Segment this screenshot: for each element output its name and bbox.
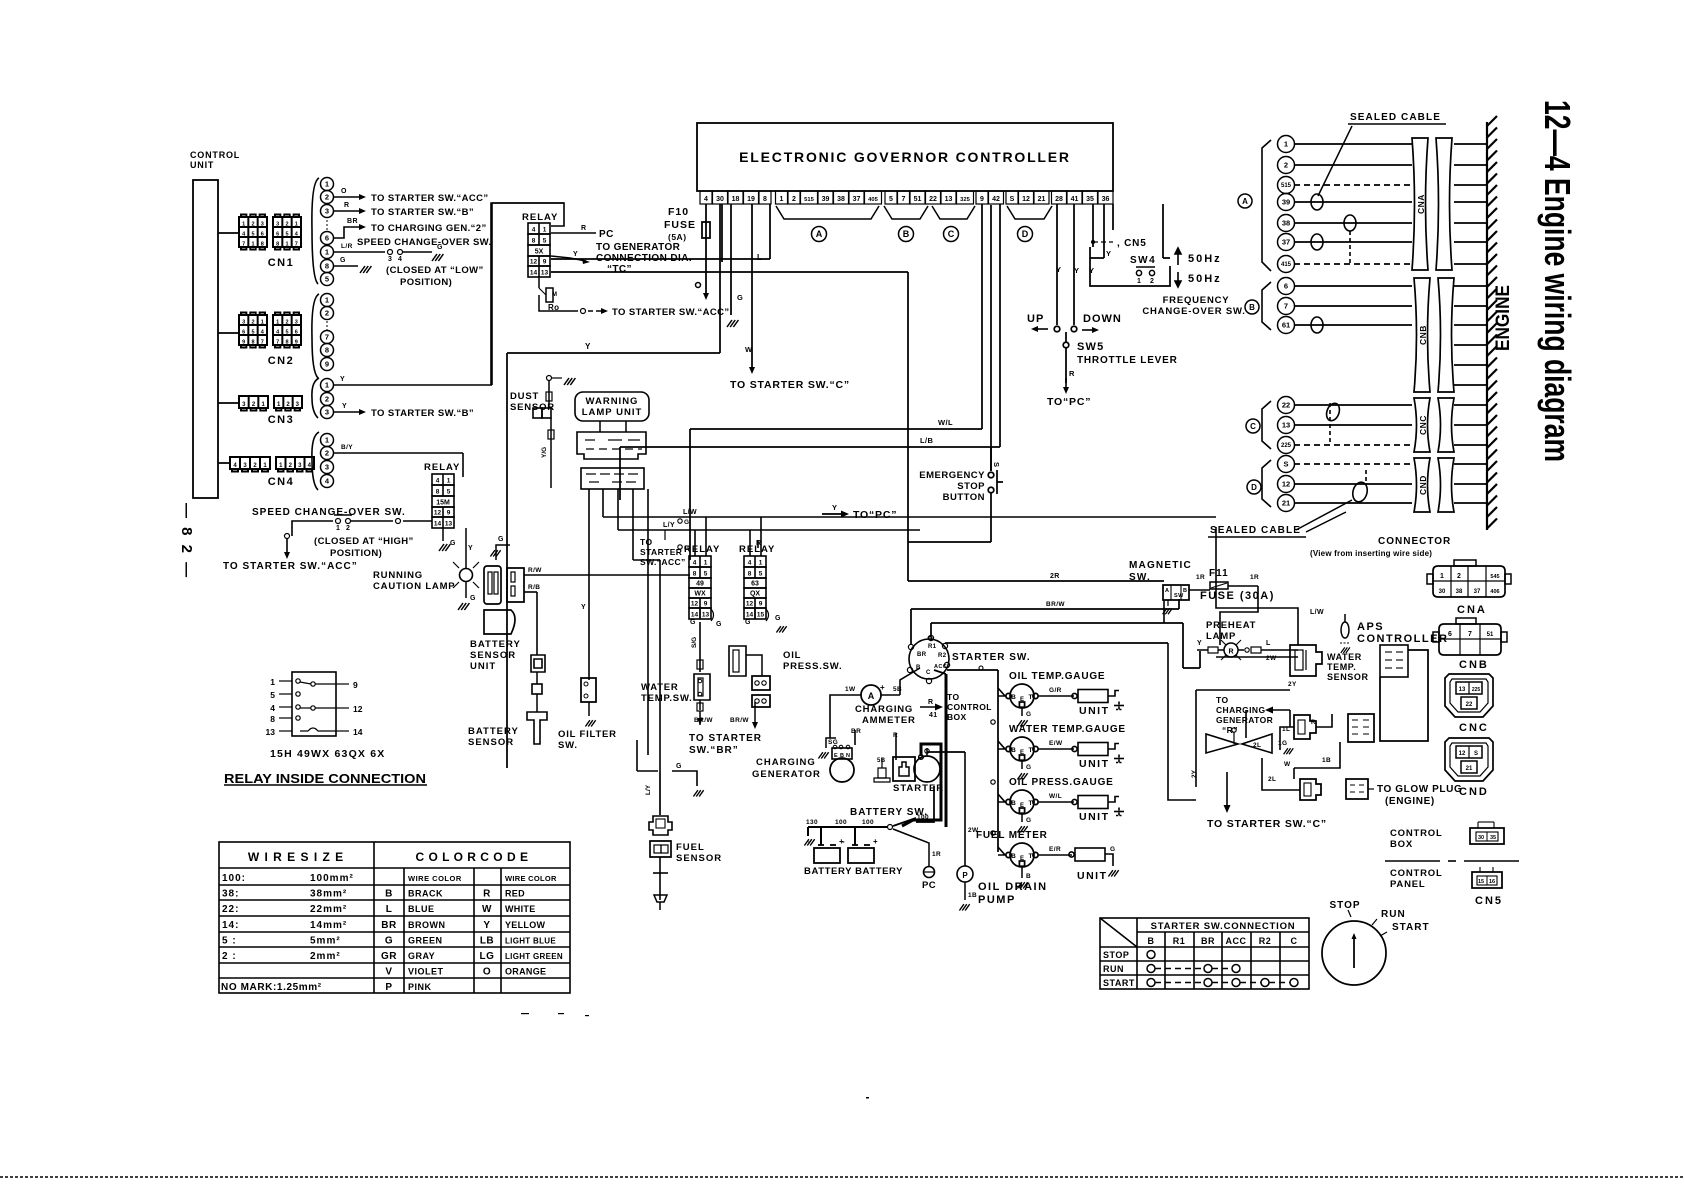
svg-text:BROWN: BROWN [408, 920, 446, 930]
svg-text:38: 38 [1282, 219, 1290, 228]
svg-text:TO STARTER SW.“ACC”: TO STARTER SW.“ACC” [371, 193, 489, 204]
svg-text:+: + [880, 683, 885, 692]
starter table column labels [1103, 936, 1298, 988]
svg-text:Y: Y [585, 342, 591, 351]
svg-text:YELLOW: YELLOW [505, 920, 546, 930]
wire CN3-1 Y long [334, 203, 564, 385]
APS controller [1357, 621, 1448, 741]
svg-text:9: 9 [353, 680, 358, 690]
connector CND body [1414, 458, 1454, 512]
svg-text:5B: 5B [877, 758, 886, 764]
oil drain pump [957, 752, 979, 911]
svg-text:L/Y: L/Y [663, 522, 675, 529]
svg-text:CND: CND [1418, 475, 1428, 495]
svg-text:LB: LB [480, 935, 494, 946]
svg-text:SW.: SW. [558, 740, 578, 751]
svg-text:51: 51 [914, 196, 922, 203]
glow wires labels [1191, 726, 1331, 783]
svg-text:E: E [1020, 803, 1024, 809]
water temp sensor label [1327, 652, 1369, 682]
svg-text:CHARGING: CHARGING [756, 757, 816, 768]
separator dashes [1385, 860, 1519, 862]
svg-text:R/W: R/W [528, 567, 542, 574]
svg-text:OIL FILTER: OIL FILTER [558, 729, 617, 740]
connector CNC symbol [1445, 674, 1493, 717]
svg-text:RELAY: RELAY [522, 212, 558, 223]
svg-text:9: 9 [242, 339, 245, 345]
CN2 pin circle column [312, 294, 334, 379]
svg-text:SENSOR: SENSOR [676, 853, 722, 864]
svg-text:BR: BR [347, 218, 358, 225]
svg-text:G: G [684, 519, 689, 526]
svg-text:C: C [1291, 936, 1298, 946]
svg-text:1: 1 [447, 478, 451, 485]
relay K1 [522, 212, 558, 277]
svg-text:7: 7 [902, 196, 906, 203]
svg-text:FUSE: FUSE [664, 219, 696, 231]
relay inside connection diagram [266, 672, 363, 737]
svg-text:CONNECTOR: CONNECTOR [1378, 536, 1451, 547]
svg-text:37: 37 [853, 196, 861, 203]
svg-text:G: G [716, 621, 722, 628]
svg-text:ELECTRONIC GOVERNOR CONTROLLER: ELECTRONIC GOVERNOR CONTROLLER [739, 149, 1071, 165]
svg-text:515: 515 [1281, 183, 1292, 189]
svg-text:BUTTON: BUTTON [943, 492, 985, 503]
svg-text:L/Y: L/Y [645, 784, 652, 795]
svg-text:CAUTION LAMP: CAUTION LAMP [373, 581, 455, 592]
svg-text:TO CHARGING GEN.“2”: TO CHARGING GEN.“2” [371, 223, 487, 234]
svg-text:5: 5 [251, 329, 254, 335]
svg-text:(CLOSED AT “HIGH”: (CLOSED AT “HIGH” [314, 536, 414, 547]
wire starter sw top runs [908, 581, 1200, 668]
svg-text:1: 1 [325, 436, 329, 445]
svg-text:E/R: E/R [1049, 846, 1061, 853]
connector CND symbol [1445, 738, 1493, 781]
svg-text:BR/W: BR/W [694, 717, 713, 724]
engine name label (rotated) [1493, 285, 1514, 351]
to starter sw C bottom [1207, 772, 1327, 830]
starter switch SW1 rotary [907, 635, 949, 683]
battery labels [804, 866, 903, 877]
svg-text:LIGHT GREEN: LIGHT GREEN [505, 952, 563, 961]
control unit box [193, 180, 218, 498]
table body text [221, 873, 563, 993]
svg-text:1: 1 [276, 319, 279, 325]
svg-text:100: 100 [862, 819, 874, 826]
svg-text:FUSE (30A): FUSE (30A) [1200, 590, 1275, 602]
svg-text:Y: Y [1089, 266, 1094, 275]
svg-text:CN1: CN1 [268, 257, 295, 269]
connector CN1 [218, 215, 301, 270]
svg-text:G: G [1026, 817, 1031, 824]
svg-text:1: 1 [759, 560, 763, 567]
svg-text:SG: SG [828, 739, 838, 746]
svg-text:Y/G: Y/G [541, 447, 548, 458]
svg-text:E/W: E/W [1049, 740, 1063, 747]
closed at high note [314, 536, 414, 559]
svg-text:VIOLET: VIOLET [408, 967, 444, 977]
svg-text:4: 4 [436, 478, 440, 485]
svg-text:415: 415 [1281, 262, 1292, 268]
control box label + connector [1390, 822, 1504, 850]
svg-text:V: V [385, 967, 392, 978]
svg-text:B/Y: B/Y [341, 444, 353, 451]
to starter sw ACC mid labels [640, 519, 689, 567]
svg-text:STARTER: STARTER [640, 547, 682, 557]
svg-text:SENSOR: SENSOR [1327, 672, 1369, 682]
svg-text:R/B: R/B [528, 584, 540, 591]
svg-text:1R: 1R [1196, 574, 1205, 581]
svg-text:B: B [903, 229, 910, 239]
wire fuse F10 branch [702, 204, 710, 295]
svg-text:E: E [1020, 750, 1024, 756]
svg-text:12: 12 [530, 259, 538, 266]
svg-text:12: 12 [691, 601, 699, 608]
relay K1 enclosure wire [491, 203, 564, 385]
svg-text:AMMETER: AMMETER [862, 715, 916, 726]
svg-text:GENERATOR: GENERATOR [1216, 715, 1273, 725]
svg-text:1: 1 [325, 296, 329, 305]
svg-text:8: 8 [285, 339, 288, 345]
svg-text:O: O [483, 967, 491, 978]
oil press sw [729, 646, 770, 707]
W/L wire [690, 204, 982, 560]
junction circles on gauge bus [976, 830, 1119, 889]
svg-text:R1: R1 [1173, 936, 1186, 946]
switch SW5 throttle lever [1077, 341, 1178, 366]
svg-text:4: 4 [748, 560, 752, 567]
to control box arrow [920, 692, 992, 722]
svg-text:30: 30 [716, 196, 724, 203]
svg-text:UNIT: UNIT [190, 160, 214, 170]
svg-text:1: 1 [1284, 140, 1288, 149]
svg-text:9: 9 [447, 510, 451, 517]
svg-text:6: 6 [1284, 282, 1288, 291]
relay types label [270, 748, 386, 760]
relay K2 [424, 462, 460, 528]
svg-text:225: 225 [1281, 443, 1292, 449]
svg-text:15: 15 [1478, 879, 1484, 885]
svg-text:15: 15 [757, 612, 765, 619]
svg-text:TO STARTER SW.“ACC”: TO STARTER SW.“ACC” [223, 561, 358, 572]
svg-text:STARTER SW.: STARTER SW. [952, 652, 1031, 663]
svg-text:6: 6 [1448, 631, 1452, 638]
svg-text:UNIT: UNIT [1079, 811, 1110, 823]
glow plug connector + label [1346, 779, 1462, 807]
svg-text:L/W: L/W [683, 509, 697, 516]
wire cell30 down to ground [722, 204, 731, 315]
svg-text:12: 12 [353, 704, 363, 714]
svg-text:21: 21 [1466, 766, 1473, 772]
svg-text:UNIT: UNIT [1077, 870, 1108, 882]
svg-text:6: 6 [276, 231, 279, 237]
svg-text:22: 22 [929, 196, 937, 203]
svg-text:G: G [676, 763, 682, 770]
svg-text:SPEED CHANGE-OVER SW.: SPEED CHANGE-OVER SW. [252, 507, 406, 518]
CNA label [1457, 604, 1487, 616]
charging generator [830, 745, 854, 782]
battery sensor [527, 592, 547, 744]
svg-text:2: 2 [251, 319, 254, 325]
svg-text:8: 8 [693, 571, 697, 578]
connector CNC body [1414, 398, 1454, 452]
svg-text:CND: CND [1459, 786, 1489, 798]
svg-text:2: 2 [1457, 573, 1461, 580]
svg-text:PC: PC [922, 880, 936, 891]
svg-text:WATER: WATER [1327, 652, 1362, 662]
svg-text:R: R [928, 699, 933, 706]
charging generator label [752, 757, 821, 780]
charging ammeter label [855, 704, 916, 726]
svg-text:APS: APS [1357, 621, 1384, 633]
svg-text:TO STARTER SW.“C”: TO STARTER SW.“C” [730, 379, 850, 391]
svg-text:12—4 Engine wiring diagram: 12—4 Engine wiring diagram [1537, 100, 1578, 462]
svg-text:FUEL METER: FUEL METER [976, 830, 1048, 841]
wires from pins to connector CNA [1294, 144, 1412, 503]
svg-text:5: 5 [285, 231, 288, 237]
svg-text:1: 1 [1137, 278, 1141, 285]
svg-text:TO: TO [947, 692, 959, 702]
svg-text:8: 8 [325, 262, 329, 271]
svg-text:6: 6 [295, 329, 298, 335]
svg-text:TO STARTER SW.“B”: TO STARTER SW.“B” [371, 207, 474, 218]
starter small connector [874, 758, 890, 782]
svg-text:DOWN: DOWN [1083, 313, 1122, 325]
svg-text:CNA: CNA [1457, 604, 1487, 616]
svg-text:22: 22 [1466, 702, 1473, 708]
starter sw label [952, 652, 1031, 663]
CN3 pin circle column [312, 378, 334, 419]
svg-text:A: A [816, 229, 823, 239]
svg-text:6: 6 [325, 234, 329, 243]
oil filter sw [581, 604, 596, 727]
svg-text:21: 21 [1038, 196, 1046, 203]
pin group braces A-D under strip [776, 206, 1052, 219]
controller terminal strip with pin numbers [700, 191, 1113, 204]
svg-text:35: 35 [1490, 835, 1496, 841]
L/Y wire label [663, 522, 675, 529]
svg-text:R: R [1069, 369, 1075, 378]
svg-text:406: 406 [1490, 589, 1499, 595]
control panel label + connector CN5 [1390, 867, 1502, 890]
to generator connection labels [596, 242, 692, 275]
svg-text:G/R: G/R [1049, 687, 1062, 694]
svg-text:1W: 1W [845, 686, 856, 693]
svg-text:100: 100 [917, 814, 929, 821]
svg-text:BOX: BOX [1390, 839, 1413, 850]
throttle UP/DOWN wires [1054, 204, 1077, 383]
svg-text:Y: Y [342, 403, 347, 410]
wires strip to SW4/CN5 [1090, 204, 1170, 258]
svg-text:G: G [385, 935, 393, 946]
running caution lamp [453, 528, 479, 610]
svg-text:T: T [1029, 747, 1033, 754]
svg-text:FUEL: FUEL [676, 842, 705, 853]
bottom dotted rule [0, 1176, 1684, 1178]
svg-text:CONTROL: CONTROL [947, 702, 992, 712]
svg-text:Y: Y [1197, 640, 1202, 647]
svg-text:CHARGING: CHARGING [1216, 705, 1265, 715]
UP label and arrow [1027, 313, 1048, 332]
svg-text:8: 8 [763, 196, 767, 203]
svg-text:B: B [1148, 936, 1155, 946]
connector CNA symbol [1427, 560, 1511, 597]
svg-text:W: W [745, 345, 753, 354]
svg-text:R2: R2 [938, 653, 947, 659]
wire relay Y [551, 251, 590, 264]
svg-text:SENSOR: SENSOR [510, 402, 555, 413]
svg-text:1B: 1B [968, 892, 977, 899]
svg-text:L: L [1266, 640, 1271, 647]
engine boundary wall with hatching [1487, 116, 1497, 530]
svg-text:SEALED CABLE: SEALED CABLE [1210, 525, 1301, 536]
svg-text:G: G [498, 536, 504, 543]
svg-text:C: C [926, 670, 931, 676]
svg-text:22: 22 [1282, 401, 1290, 410]
svg-text:7: 7 [325, 333, 329, 342]
svg-text:7: 7 [295, 241, 298, 247]
svg-text:Y: Y [483, 920, 490, 931]
stray marks [521, 1013, 869, 1099]
switch SW4 [1090, 247, 1170, 286]
wire to starter ACC (relay) [539, 295, 730, 318]
svg-text:1R: 1R [932, 851, 941, 858]
svg-text:E: E [1020, 856, 1024, 862]
svg-text:“R”: “R” [1222, 725, 1238, 735]
group C brace [1262, 401, 1271, 449]
svg-text:(View from inserting wire side: (View from inserting wire side) [1310, 549, 1432, 558]
svg-text:1: 1 [704, 560, 708, 567]
svg-text:14: 14 [746, 612, 754, 619]
svg-text:41: 41 [929, 712, 938, 719]
svg-text:START: START [1103, 978, 1135, 988]
wires from warning lamp strip [589, 489, 1216, 771]
svg-text:W I R E S I Z E: W I R E S I Z E [248, 850, 344, 864]
svg-text:WX: WX [694, 591, 706, 598]
svg-text:BR/W: BR/W [730, 717, 749, 724]
sealed cable label top [1318, 112, 1446, 196]
svg-text:5: 5 [889, 196, 893, 203]
group A brace [1262, 140, 1271, 271]
battery sensor unit body [484, 566, 524, 634]
group A circled label [1238, 194, 1252, 208]
svg-text:3: 3 [261, 221, 264, 227]
svg-text:RELAY: RELAY [739, 544, 775, 555]
svg-text:16: 16 [1489, 879, 1495, 885]
svg-text:19: 19 [747, 196, 755, 203]
to starter ACC bottom-left [223, 539, 358, 572]
emergency stop button label [919, 470, 985, 503]
svg-text:B: B [1249, 303, 1255, 312]
grid connector right of glow relay [1348, 714, 1374, 742]
svg-text:S: S [1474, 751, 1478, 757]
svg-text:B: B [385, 889, 393, 900]
connector CNA body [1412, 138, 1452, 270]
ground at speed sw [432, 254, 443, 261]
svg-text:NO MARK:1.25mm²: NO MARK:1.25mm² [221, 982, 322, 993]
svg-text:MAGNETIC: MAGNETIC [1129, 560, 1192, 571]
node CN5 label [1091, 238, 1147, 249]
wire starter sw to gauges bus [947, 666, 998, 852]
svg-text:1: 1 [325, 180, 329, 189]
closed at low position note [386, 265, 484, 288]
svg-text:38mm²: 38mm² [310, 889, 347, 900]
fuel sensor label [676, 842, 722, 864]
svg-text:SENSOR: SENSOR [468, 737, 514, 748]
svg-text:CNC: CNC [1418, 415, 1428, 435]
svg-text:9: 9 [704, 601, 708, 608]
engine stub wires [1454, 144, 1487, 503]
connector CN2 [218, 313, 301, 368]
svg-text:“TC”: “TC” [607, 264, 632, 275]
group C circled label [1246, 419, 1260, 433]
svg-text:RELAY INSIDE CONNECTION: RELAY INSIDE CONNECTION [224, 771, 426, 786]
wire to charging gen 2 [334, 218, 487, 238]
heavy battery cable [902, 674, 946, 827]
svg-text:CN5: CN5 [1475, 895, 1503, 907]
svg-text:5X: 5X [535, 249, 544, 256]
oil press sw label [783, 650, 842, 672]
svg-text:2R: 2R [1050, 573, 1060, 580]
svg-text:4: 4 [270, 703, 275, 713]
svg-text:14:: 14: [222, 920, 239, 931]
svg-text:G: G [1026, 711, 1031, 718]
svg-text:8: 8 [748, 571, 752, 578]
svg-text:G: G [737, 293, 743, 302]
svg-text:SEALED CABLE: SEALED CABLE [1350, 112, 1441, 123]
svg-text:14: 14 [530, 270, 538, 277]
svg-text:2: 2 [346, 525, 350, 532]
svg-text:BR: BR [917, 652, 927, 658]
svg-text:CONTROL: CONTROL [1390, 828, 1443, 839]
svg-text:WIRE COLOR: WIRE COLOR [505, 874, 557, 883]
magnetic switch [1129, 560, 1192, 614]
svg-text:Y: Y [581, 604, 586, 611]
svg-text:C: C [948, 229, 955, 239]
svg-text:9: 9 [325, 360, 329, 369]
svg-text:TO GENERATOR: TO GENERATOR [596, 242, 681, 253]
svg-text:7: 7 [1284, 302, 1288, 311]
svg-text:9: 9 [295, 339, 298, 345]
svg-text:2 :: 2 : [222, 951, 237, 962]
svg-text:2: 2 [1150, 278, 1154, 285]
svg-text:TO: TO [1216, 695, 1228, 705]
svg-text:— 8 2 —: — 8 2 — [178, 503, 195, 580]
svg-text:9: 9 [543, 259, 547, 266]
svg-text:SW.: SW. [1129, 572, 1151, 583]
circled B at freq sw [1245, 300, 1259, 314]
svg-text:7: 7 [1468, 631, 1472, 638]
svg-text:BOX: BOX [947, 712, 967, 722]
running caution lamp label [373, 570, 455, 592]
svg-text:BR/W: BR/W [1046, 601, 1065, 608]
svg-text:W: W [1284, 761, 1291, 768]
svg-text:TO GLOW PLUG: TO GLOW PLUG [1377, 784, 1462, 795]
svg-text:1: 1 [270, 677, 275, 687]
svg-text:ACC: ACC [1226, 936, 1247, 946]
svg-text:3: 3 [388, 256, 392, 263]
starter motor [893, 748, 940, 782]
svg-text:STARTER SW.CONNECTION: STARTER SW.CONNECTION [1151, 921, 1296, 932]
ground under relay K2 [439, 528, 456, 551]
svg-text:3: 3 [242, 319, 245, 325]
svg-text:5: 5 [285, 329, 288, 335]
svg-text:G: G [470, 595, 476, 602]
R/W R/B wires [524, 567, 690, 592]
svg-text:1: 1 [242, 221, 245, 227]
svg-text:DUST: DUST [510, 391, 539, 402]
svg-text:F10: F10 [668, 206, 689, 218]
